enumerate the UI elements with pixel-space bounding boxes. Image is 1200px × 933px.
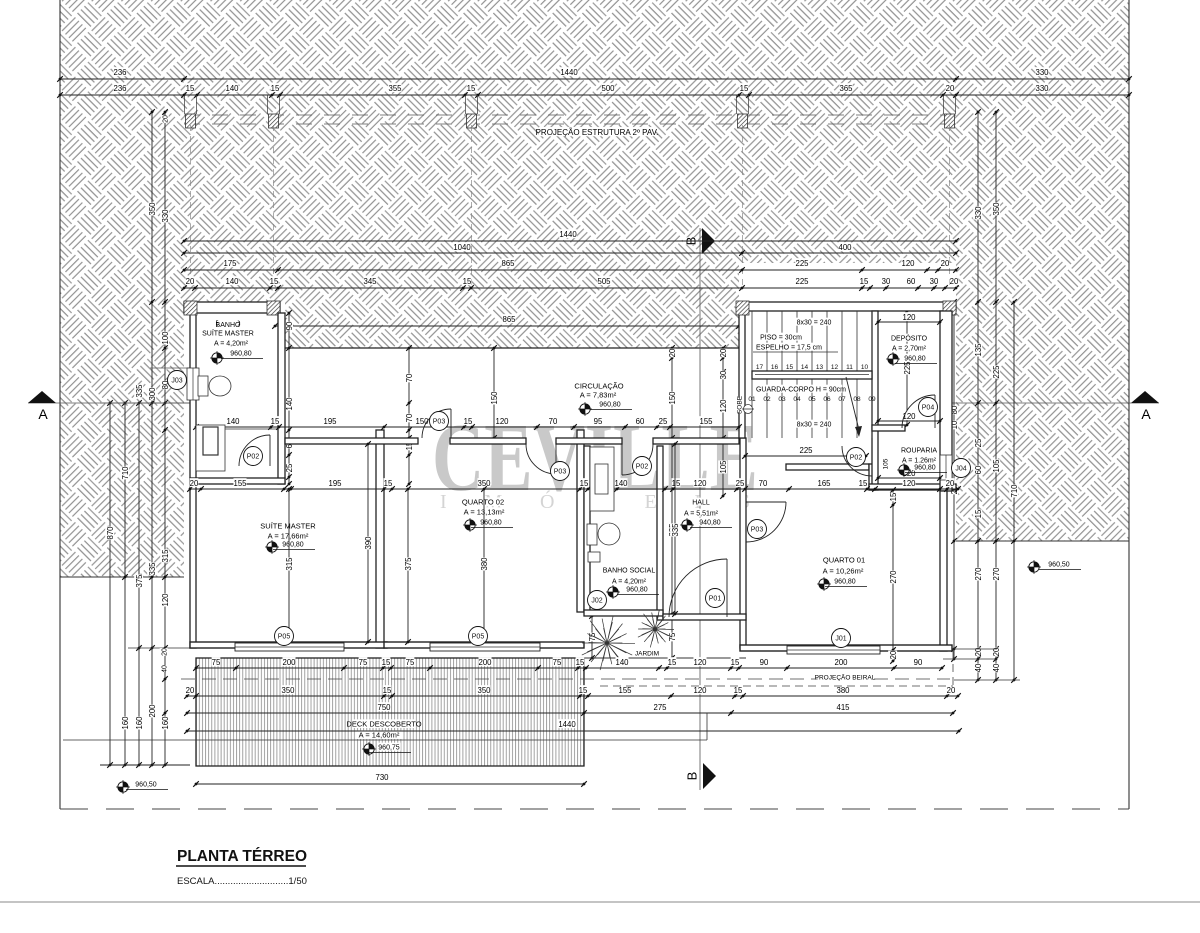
svg-text:140: 140 — [225, 277, 239, 286]
svg-text:40: 40 — [992, 663, 1001, 672]
svg-text:SUÍTE MASTER: SUÍTE MASTER — [202, 329, 254, 338]
dimension line 175/865/225/120/20 at y270 — [184, 269, 956, 271]
svg-text:390: 390 — [364, 536, 373, 550]
room label suite master — [263, 521, 313, 530]
level marker roupania — [897, 463, 911, 477]
right vertical dim line x1014 (710) — [1013, 302, 1015, 680]
door P05 quarto02 circle — [469, 627, 488, 646]
svg-text:95: 95 — [594, 417, 603, 426]
window J03 in left wall — [187, 368, 199, 400]
column projection dashed drop line 2 — [273, 125, 275, 288]
right vertical dim line x996 (350/225/105/270) — [995, 112, 997, 680]
svg-text:SUÍTE MASTER: SUÍTE MASTER — [260, 522, 316, 531]
wall banho right / circulacao left — [278, 313, 285, 484]
svg-text:15: 15 — [734, 686, 743, 695]
svg-text:A = 2,70m²: A = 2,70m² — [892, 346, 927, 353]
window suite master bottom — [235, 643, 344, 651]
stair label 8x30=240 lower — [794, 420, 833, 428]
svg-text:P02: P02 — [850, 455, 863, 462]
svg-text:J04: J04 — [955, 466, 966, 473]
svg-text:225: 225 — [799, 446, 813, 455]
window J02 circle — [588, 591, 607, 610]
dimension line y668 75/200/75/15/75/200/75/15/140/15/120/15/90/200/90 — [196, 667, 942, 669]
svg-text:P03: P03 — [433, 419, 446, 426]
quarto01 top wall — [786, 464, 869, 470]
svg-text:236: 236 — [113, 84, 126, 93]
hatch boundary right column bottom edge — [956, 540, 1129, 542]
banho social shower — [590, 447, 614, 511]
door P02 stair landing arc — [842, 446, 872, 476]
vertical dim line x409 (70/70/15) — [408, 348, 410, 484]
svg-text:25: 25 — [659, 417, 668, 426]
svg-text:A = 17,66m²: A = 17,66m² — [268, 532, 309, 541]
stair guard rail — [752, 371, 872, 379]
svg-text:20: 20 — [889, 650, 898, 659]
svg-text:155: 155 — [618, 686, 632, 695]
suite master top wall (lavatory bottom) — [190, 478, 285, 484]
svg-text:15: 15 — [859, 479, 868, 488]
svg-text:75: 75 — [359, 658, 368, 667]
wall stair / deposito divider — [872, 311, 878, 490]
svg-text:20: 20 — [719, 348, 728, 357]
horizontal line y740 — [63, 739, 707, 741]
left vertical dim line x121 (710/160) — [124, 403, 126, 765]
wall stub right of quarto01 top — [869, 464, 875, 490]
deck descoberto striped area — [196, 658, 584, 766]
svg-text:30: 30 — [719, 370, 728, 379]
svg-text:870: 870 — [106, 526, 115, 540]
svg-text:120: 120 — [693, 658, 707, 667]
svg-text:400: 400 — [838, 243, 852, 252]
svg-text:225: 225 — [903, 361, 912, 375]
left cluster bottom tick line — [100, 764, 190, 766]
vertical dim 315 suite master — [288, 489, 290, 642]
room label jardim — [636, 649, 658, 656]
svg-text:16: 16 — [771, 364, 779, 371]
banho social bottom wall — [584, 610, 663, 616]
column marker banho top-left — [184, 301, 197, 315]
left vertical dim line x148 (350/300/335/200) — [151, 112, 153, 765]
svg-text:120: 120 — [693, 686, 707, 695]
wall banho social right / hall left — [657, 446, 663, 620]
window J03 circle — [168, 371, 187, 390]
section line A-A right — [940, 402, 1159, 404]
vertical dim line x672 (20/150/335/75) — [671, 348, 673, 658]
svg-text:20: 20 — [186, 277, 195, 286]
svg-text:330: 330 — [974, 206, 983, 220]
svg-text:505: 505 — [597, 277, 611, 286]
column marker stair top-left — [736, 301, 749, 315]
svg-text:70: 70 — [405, 373, 414, 382]
svg-text:06: 06 — [823, 396, 831, 403]
stair direction arrow — [846, 377, 859, 430]
svg-text:105: 105 — [719, 460, 728, 474]
banho suite top wall — [184, 302, 280, 313]
svg-text:960,80: 960,80 — [282, 542, 304, 549]
svg-text:75: 75 — [406, 658, 415, 667]
svg-text:15: 15 — [382, 658, 391, 667]
svg-text:01: 01 — [748, 396, 756, 403]
svg-text:195: 195 — [328, 479, 342, 488]
svg-text:PROJEÇÃO ESTRUTURA 2º PAV.: PROJEÇÃO ESTRUTURA 2º PAV. — [536, 128, 659, 137]
svg-text:15: 15 — [579, 686, 588, 695]
vertical dim line x907 deposito (225) — [906, 311, 908, 425]
door P01 hall arc — [669, 559, 727, 617]
svg-text:150: 150 — [668, 391, 677, 405]
dimension line 1040/400 at y253 — [184, 252, 956, 254]
level marker banho suite — [210, 351, 224, 365]
dimension line y713 750/275/415 — [187, 712, 953, 714]
vertical dim 105 roupania — [881, 458, 889, 469]
circulacao bottom wall segment 1 — [285, 438, 418, 444]
right vertical dim line x960 — [953, 302, 955, 659]
svg-text:SOBE: SOBE — [736, 395, 743, 414]
room label quarto01 — [825, 555, 863, 564]
svg-text:15: 15 — [271, 417, 280, 426]
svg-text:15: 15 — [731, 658, 740, 667]
svg-text:120: 120 — [902, 479, 916, 488]
svg-text:P02: P02 — [636, 464, 649, 471]
svg-text:1440: 1440 — [559, 230, 577, 239]
banho social left inner wall — [584, 446, 590, 612]
vertical dim 380 quarto02 — [483, 489, 485, 642]
svg-text:75: 75 — [553, 658, 562, 667]
J03 window top tick line — [150, 367, 196, 369]
svg-text:25: 25 — [974, 438, 983, 447]
svg-text:350: 350 — [148, 202, 157, 216]
svg-text:960,80: 960,80 — [904, 356, 926, 363]
svg-text:350: 350 — [281, 686, 295, 695]
hatch boundary left column bottom edge — [60, 576, 184, 578]
svg-text:350: 350 — [477, 479, 491, 488]
svg-text:11: 11 — [846, 364, 853, 371]
hatch field right column — [956, 263, 1129, 541]
svg-text:140: 140 — [614, 479, 628, 488]
svg-text:20: 20 — [941, 259, 950, 268]
deposito dim 120 top — [878, 321, 940, 323]
svg-text:960,80: 960,80 — [480, 520, 502, 527]
svg-text:865: 865 — [501, 259, 515, 268]
banho social toilet — [587, 523, 620, 545]
banho social small sink — [588, 552, 600, 562]
quarto02 bottom wall — [384, 642, 584, 648]
door P03 quarto02 arc — [422, 409, 451, 438]
second floor projection dashed line lower — [184, 123, 956, 125]
svg-text:960,80: 960,80 — [230, 351, 252, 358]
dimension line y731 1440 — [187, 730, 959, 732]
svg-text:960,80: 960,80 — [834, 579, 856, 586]
svg-text:15: 15 — [464, 417, 473, 426]
svg-text:08: 08 — [853, 396, 861, 403]
svg-text:960,80: 960,80 — [626, 587, 648, 594]
svg-text:140: 140 — [285, 397, 294, 411]
stair left wall — [739, 311, 745, 438]
svg-text:GUARDA-CORPO H = 90cm: GUARDA-CORPO H = 90cm — [756, 387, 846, 394]
svg-text:20: 20 — [992, 647, 1001, 656]
svg-text:30: 30 — [882, 277, 891, 286]
stair label guarda-corpo — [760, 385, 842, 393]
svg-text:QUARTO 01: QUARTO 01 — [823, 556, 865, 565]
svg-text:A = 10,26m²: A = 10,26m² — [823, 567, 864, 576]
column projection dashed drop line 4 — [742, 125, 744, 288]
svg-text:12: 12 — [831, 364, 839, 371]
svg-text:05: 05 — [808, 396, 816, 403]
svg-text:15: 15 — [383, 686, 392, 695]
right cluster bottom tick line y680 — [954, 679, 1020, 681]
svg-text:730: 730 — [375, 773, 389, 782]
svg-text:120: 120 — [901, 259, 915, 268]
vestibule wash basin — [592, 464, 607, 493]
svg-text:A: A — [38, 406, 48, 422]
svg-text:75: 75 — [668, 632, 677, 641]
svg-text:PISO = 30cm: PISO = 30cm — [760, 335, 802, 342]
room label hall — [693, 498, 709, 506]
lot boundary bottom dashed line — [60, 808, 1129, 810]
level marker hall — [680, 518, 694, 532]
svg-text:17: 17 — [756, 364, 764, 371]
svg-text:225: 225 — [795, 259, 809, 268]
column projection dashed drop line 3 — [471, 125, 473, 288]
svg-text:275: 275 — [653, 703, 667, 712]
stair treads lower flight — [752, 378, 872, 438]
door P02 banho suite circle — [244, 447, 263, 466]
svg-text:75: 75 — [212, 658, 221, 667]
svg-text:155: 155 — [233, 479, 247, 488]
vertical dims suite/quarto row 390/375 — [367, 444, 369, 642]
right cluster tick line y649 — [943, 648, 997, 650]
stair numbers lower 01-09 — [748, 396, 876, 403]
svg-text:QUARTO 02: QUARTO 02 — [462, 498, 504, 507]
svg-text:15: 15 — [384, 479, 393, 488]
door P04 deposito arc — [902, 395, 935, 428]
svg-text:PROJEÇÃO BEIRAL: PROJEÇÃO BEIRAL — [815, 672, 876, 681]
section marker B bottom triangle — [703, 763, 716, 789]
svg-text:375: 375 — [404, 557, 413, 571]
svg-text:P03: P03 — [554, 469, 567, 476]
column projection dashed drop line 5 — [949, 125, 951, 288]
svg-text:335: 335 — [135, 384, 144, 398]
svg-text:25: 25 — [736, 479, 745, 488]
svg-text:960,50: 960,50 — [1048, 562, 1070, 569]
svg-text:ROUPARIA: ROUPARIA — [901, 448, 937, 455]
svg-text:330: 330 — [1035, 68, 1049, 77]
svg-text:A = 5,51m²: A = 5,51m² — [684, 511, 719, 518]
column marker top row 3 — [467, 114, 477, 128]
svg-text:40: 40 — [162, 665, 169, 673]
svg-text:HALL: HALL — [692, 500, 710, 507]
svg-text:225: 225 — [992, 365, 1001, 379]
level marker 960,50 right — [1027, 560, 1041, 574]
right cluster tick line y659 — [943, 658, 997, 660]
dimension line top detail 236/15/140/15/355/15/500/15/365/20/330 — [60, 94, 1129, 96]
door P03 quarto02 circle — [430, 412, 449, 431]
svg-text:350: 350 — [477, 686, 491, 695]
svg-text:90: 90 — [285, 321, 294, 330]
vertical dim line x494 (150) — [493, 348, 495, 438]
door P02 banho social arc — [622, 444, 653, 475]
svg-text:350: 350 — [992, 202, 1001, 216]
dimension line 20/140/15/345/15/505 and right side at y288 — [184, 287, 956, 289]
svg-text:120: 120 — [719, 399, 728, 413]
level marker deposito — [886, 352, 900, 366]
room label deposito — [893, 334, 924, 342]
second floor projection dashed line upper — [184, 114, 956, 116]
stair label espelho — [756, 343, 823, 351]
level marker deck — [362, 742, 376, 756]
dimension line y427 140/15/195/150/15/120/70/95/60/25/155 — [196, 426, 739, 428]
left cluster mid tick line y648 — [128, 647, 196, 649]
left cluster tick line y577 handled by hatch edge — [100, 402, 196, 404]
level marker quarto02 — [463, 518, 477, 532]
svg-text:315: 315 — [285, 557, 294, 571]
stair espelho underline — [753, 351, 838, 353]
svg-text:710: 710 — [1010, 484, 1019, 498]
svg-text:100: 100 — [161, 331, 170, 345]
section line B-B vertical — [699, 228, 701, 790]
dimension line top 236-1440-330 — [60, 78, 1129, 80]
svg-text:15: 15 — [271, 84, 280, 93]
svg-text:140: 140 — [615, 658, 629, 667]
door P03 vestibule circle — [551, 462, 570, 481]
window J04 in right wall — [940, 455, 952, 480]
svg-text:15: 15 — [889, 492, 898, 501]
room label deck descoberto — [353, 719, 416, 728]
svg-text:380: 380 — [480, 557, 489, 571]
svg-text:20: 20 — [946, 84, 955, 93]
section marker B top letter — [683, 237, 699, 246]
svg-text:DEPÓSITO: DEPÓSITO — [891, 334, 928, 343]
jardim bottom edge line — [583, 657, 746, 659]
svg-text:1440: 1440 — [560, 68, 578, 77]
hatch boundary above circulacao bottom edge — [285, 347, 739, 349]
svg-text:200: 200 — [834, 658, 848, 667]
svg-text:A = 7,83m²: A = 7,83m² — [580, 391, 617, 400]
svg-text:02: 02 — [763, 396, 771, 403]
svg-text:P02: P02 — [247, 454, 260, 461]
label 20 top left of cluster — [161, 115, 170, 123]
stair start circle — [744, 405, 753, 414]
svg-text:JARDIM: JARDIM — [635, 650, 659, 657]
door P02 banho social circle — [633, 457, 652, 476]
svg-text:A = 4,20m²: A = 4,20m² — [214, 341, 249, 348]
svg-text:8x30 = 240: 8x30 = 240 — [797, 320, 832, 327]
svg-text:120: 120 — [693, 479, 707, 488]
svg-text:8x30 = 240: 8x30 = 240 — [797, 422, 832, 429]
vertical dim line x289 (90/140/60/25) — [288, 313, 290, 484]
svg-text:90: 90 — [914, 658, 923, 667]
banho lavatory divider line — [196, 428, 278, 430]
svg-text:105: 105 — [882, 458, 889, 469]
svg-text:60: 60 — [907, 277, 916, 286]
svg-text:P04: P04 — [922, 405, 935, 412]
vertical dim 335 hall — [674, 444, 676, 614]
door P03 hall circle — [748, 520, 767, 539]
svg-text:155: 155 — [699, 417, 713, 426]
door P03 vestibule arc — [526, 444, 556, 474]
room label circulacao — [578, 381, 620, 390]
circulacao bottom wall segment 3 — [556, 438, 622, 444]
dimension line y784 730 — [196, 783, 584, 785]
hatch field left column — [60, 263, 184, 577]
svg-text:A: A — [1141, 406, 1151, 422]
stair treads upper flight — [752, 311, 872, 372]
hall right wall / quarto01 left wall — [740, 438, 746, 648]
svg-text:120: 120 — [161, 593, 170, 607]
projecao beiral dashed vertical — [952, 651, 954, 686]
svg-text:10: 10 — [861, 364, 869, 371]
level marker quarto01 — [817, 577, 831, 591]
svg-text:960,80: 960,80 — [599, 402, 621, 409]
svg-text:15: 15 — [467, 84, 476, 93]
svg-text:345: 345 — [363, 277, 377, 286]
svg-text:BANHO: BANHO — [216, 322, 241, 329]
svg-text:120: 120 — [495, 417, 509, 426]
svg-text:200: 200 — [478, 658, 492, 667]
svg-text:20: 20 — [162, 648, 169, 656]
window J01 quarto01 bottom — [787, 646, 880, 654]
svg-text:120: 120 — [902, 412, 916, 421]
left vertical dim line x106 (870) — [109, 403, 111, 765]
left vertical dim line x134 (335/375/160) — [138, 403, 140, 765]
title underline — [176, 865, 306, 867]
svg-text:20: 20 — [186, 686, 195, 695]
svg-text:1440: 1440 — [558, 720, 576, 729]
level marker banho social — [606, 585, 620, 599]
svg-text:270: 270 — [889, 570, 898, 584]
door P05 suite master circle — [275, 627, 294, 646]
svg-text:J03: J03 — [171, 378, 182, 385]
section marker B top triangle — [702, 228, 715, 254]
door P04 circle — [919, 398, 938, 417]
svg-text:15: 15 — [974, 509, 983, 518]
projecao beiral dashed horizontal — [600, 685, 953, 687]
svg-text:40: 40 — [974, 663, 983, 672]
deposito dim 120 bottom — [878, 420, 940, 422]
roupania dim 120 — [878, 477, 940, 479]
column marker top row 2 — [269, 114, 279, 128]
stair landing dim 225 — [745, 455, 866, 457]
svg-text:960,75: 960,75 — [378, 745, 400, 752]
svg-text:15: 15 — [740, 84, 749, 93]
svg-text:03: 03 — [778, 396, 786, 403]
svg-text:270: 270 — [974, 567, 983, 581]
svg-text:500: 500 — [601, 84, 615, 93]
column marker top row 5 — [945, 114, 955, 128]
stair sobe text — [735, 395, 743, 414]
svg-text:160: 160 — [121, 716, 130, 730]
svg-text:335: 335 — [148, 562, 157, 576]
banho suite toilet — [198, 376, 231, 396]
text projecao estrutura 2 pav — [539, 127, 655, 136]
svg-text:70: 70 — [405, 413, 414, 422]
svg-text:200: 200 — [148, 704, 157, 718]
svg-text:165: 165 — [817, 479, 831, 488]
banho suite sink counter — [196, 425, 225, 471]
svg-text:355: 355 — [388, 84, 402, 93]
svg-text:195: 195 — [323, 417, 337, 426]
svg-text:160: 160 — [161, 716, 170, 730]
svg-text:105: 105 — [992, 459, 1001, 473]
room label banho suite master — [218, 319, 238, 327]
door P02 banho suite arc — [239, 435, 270, 466]
svg-text:150: 150 — [490, 391, 499, 405]
vertical dim line x592 jardim (75) — [591, 616, 593, 658]
circulacao bottom wall segment 2 — [450, 438, 526, 444]
quarto01 right wall lower part — [940, 491, 947, 651]
svg-text:1040: 1040 — [453, 243, 471, 252]
quarto02 right wall / banho social left wall — [577, 430, 584, 612]
svg-text:380: 380 — [836, 686, 850, 695]
